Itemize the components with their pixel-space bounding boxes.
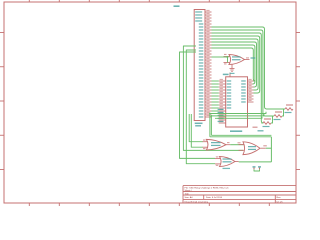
svg-text:Date: 6 Jul 2014: Date: 6 Jul 2014 [206, 196, 223, 199]
wire rail to gate U4C input 1 [180, 52, 216, 158]
net label at U3A output [251, 57, 256, 58]
net label at loop top [253, 127, 258, 128]
wire rail to gate U4C input 2 [186, 50, 215, 164]
wire U3A input tie [212, 56, 229, 63]
gate U4B 74LS32 [239, 142, 267, 155]
wire rail to gate U4B input 2 [183, 46, 243, 150]
wire to resistor chain 2 [211, 114, 264, 116]
svg-text:Size: A4: Size: A4 [185, 196, 194, 199]
value 27C512 of U2 [230, 130, 242, 132]
reference U2 [223, 74, 229, 76]
wires U1 to U2 address lines [212, 81, 219, 111]
wire loop right vertical [270, 137, 272, 162]
ground GND below U3A [230, 65, 235, 75]
resistor R3 [263, 118, 272, 127]
wire loop top horizontal [209, 113, 271, 137]
value 27C512 of U1 [195, 123, 203, 125]
wire power flag tie [254, 169, 260, 171]
wire resistor chain link 2 [282, 109, 285, 116]
svg-text:Id: 1/1: Id: 1/1 [277, 201, 284, 203]
label near U4B input [238, 142, 241, 143]
power pin on U2 top [229, 73, 231, 77]
wire U4C output to loop [239, 161, 272, 163]
EPROM U2 27C512 [218, 77, 254, 127]
wire resistor chain feed 1 [261, 122, 263, 124]
wire bundle U1 data to right side [212, 27, 285, 123]
net label VCC [174, 5, 180, 7]
wire resistor chain link 1 [271, 116, 274, 123]
wire rail to gate U4A input 2 [191, 114, 203, 147]
EPROM U1 27C512 [194, 10, 211, 121]
wire U4B output [266, 147, 272, 149]
gate U4C 74LS08 [215, 156, 239, 169]
svg-text:Sheet: /: Sheet: / [185, 189, 193, 192]
power flag PWR1 [253, 166, 256, 169]
resistor R2 [274, 111, 283, 120]
svg-text:Title:: Title: [185, 192, 190, 195]
wire to resistor chain 1 [210, 112, 266, 114]
wire rail to gate U4A input 1 [189, 114, 203, 142]
resistor R1 [285, 104, 294, 113]
gate U3A 74LS32 [224, 54, 250, 65]
wire to resistor chain 3 [215, 117, 262, 119]
svg-text:Rev:: Rev: [277, 197, 282, 199]
net label chain bottom [258, 130, 264, 131]
wire U4A out to U4B in 1 [230, 144, 244, 146]
svg-text:KiCad E.D.A. eeschema: KiCad E.D.A. eeschema [185, 200, 209, 203]
gate U4A 74LS08 [203, 139, 231, 150]
power flag PWR2 [258, 166, 261, 169]
